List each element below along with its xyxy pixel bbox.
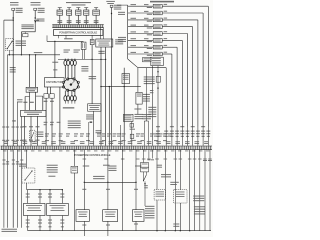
node spark plug cluster (64, 60, 76, 103)
node transfer case label (145, 206, 155, 219)
switch SW5 brake on-off (154, 150, 165, 231)
sensor B1 barometric (122, 74, 129, 84)
injector INJ6 (153, 39, 162, 43)
switch SW6 neutral sense (174, 150, 187, 231)
solenoid S4 (84, 8, 89, 16)
node SPARK PLUGS label (63, 107, 75, 108)
connector C101 below injectors (151, 57, 164, 65)
fuse F1 (12, 8, 23, 19)
op-amp U1 POWERTRAIN CONTROL MODULE box (top) (54, 30, 103, 36)
wire from fuse F2 down (34, 18, 39, 32)
fuse F3 fuse link (110, 5, 121, 15)
connector pin labels right bank (156, 126, 210, 145)
connector strip C2 (main PCM 60 pin) (1, 146, 213, 150)
node bottom left destination label (2, 229, 18, 232)
injector INJ1 (153, 4, 162, 8)
wire drops to sensors (82, 182, 138, 209)
switch SW1 ignition switch (6, 39, 27, 55)
wire right drops far (203, 150, 212, 231)
wire solenoid S3 to PCM connector (76, 15, 81, 24)
sensor B3 low coolant (76, 210, 89, 222)
capacitor C1 radio interference (68, 104, 102, 146)
wire right drop x165 (161, 150, 171, 231)
node strip C2 labels above (4, 141, 209, 144)
wire below speed control boxes (26, 216, 65, 231)
wire from fuse F1 down (12, 18, 14, 55)
solenoid S3 (76, 8, 81, 16)
wire injector INJ1 return (162, 4, 208, 127)
wire PCM to distributor feed (47, 35, 84, 41)
node HOT IN RUN header (31, 2, 41, 6)
injector INJ2 (153, 11, 162, 15)
wire injector INJ5 return (162, 31, 187, 126)
relay K1 (96, 28, 123, 54)
wire below sensors (82, 221, 138, 236)
solenoid S2 (67, 8, 72, 16)
op-amp U3 speed control servo (24, 203, 46, 215)
node bottom stub labels (83, 159, 212, 160)
injector INJ3 (153, 18, 162, 22)
svg-text:POWERTRAIN CONTROL MODULE: POWERTRAIN CONTROL MODULE (75, 153, 111, 157)
wire injector INJ7 feed (128, 45, 154, 49)
node wire labels above main strip (2, 127, 172, 142)
inductor L1 IGNITION COIL (26, 55, 37, 92)
node HOT AT ALL TIMES header right (106, 1, 115, 4)
node start feed tee (21, 24, 35, 54)
wire solenoid S1 to PCM connector (57, 15, 62, 24)
sensor B4 coolant temperature (103, 210, 118, 222)
wire injector INJ1 feed (128, 4, 154, 8)
wire EDF bus diagonal (128, 59, 167, 127)
wire fuse F1 rail to PCM strip (12, 55, 14, 228)
wire right drop x175 (170, 150, 179, 231)
connector C102 (90, 35, 94, 103)
wire ignition bus (8, 52, 61, 73)
wire injector INJ5 feed (128, 31, 154, 35)
connector strip C1 (top PCM 60-pin) (52, 25, 104, 28)
node C100 label left (35, 19, 45, 23)
wire sensor return drop (71, 150, 78, 231)
wire solenoid S5 to PCM connector (94, 15, 99, 24)
switch SW2 stoplamp (30, 130, 44, 141)
connector C103 with pins (81, 42, 86, 59)
solenoid S1 (57, 8, 63, 16)
wire signal return bus (83, 150, 142, 183)
node FUEL INJECTORS header (150, 1, 174, 3)
sensor B2 knock sensor (136, 68, 150, 115)
wire mid feeds to strip (89, 122, 121, 146)
wire left rail E (21, 116, 23, 227)
node strip C2 pin numbers (3, 150, 209, 151)
wire injector supply bus VPWR (117, 5, 128, 59)
connector C104 (124, 109, 144, 122)
injector INJ8 (153, 52, 162, 56)
connector C106 stack (141, 150, 149, 172)
op-amp U4 speed control amplifier (47, 203, 69, 215)
wire ground bus bottom (28, 230, 211, 231)
injector INJ4 (153, 25, 162, 29)
wire bottom left harness labels (3, 160, 24, 165)
svg-text:POWERTRAIN CONTROL MODULE: POWERTRAIN CONTROL MODULE (59, 31, 97, 35)
sensor B5 oil pressure (133, 210, 145, 222)
switch SW3 clutch pedal position (19, 150, 58, 190)
wire injector INJ8 return (162, 52, 172, 127)
op-amp U2 ignition control module (21, 110, 47, 116)
wire PCM feeds middle right (81, 7, 124, 145)
wire solenoid S4 to PCM connector (84, 15, 89, 24)
node HOT AT ALL TIMES header left (10, 2, 19, 6)
switch SW4 4x4 low (143, 172, 148, 206)
wire left rail A tee (4, 19, 14, 227)
node distributor cap (62, 78, 79, 92)
transistor Q1 DISTRIBUTOR (44, 78, 64, 87)
wire solenoid S2 to PCM connector (67, 15, 72, 24)
wire plug leads (65, 59, 76, 61)
wire distributor outputs (44, 87, 61, 146)
wire injector INJ3 return (162, 18, 198, 127)
wire injector INJ6 return (162, 38, 182, 126)
wire shield drain below C101 (148, 66, 160, 146)
wire coil to module (12, 92, 43, 121)
fuse F2 (34, 8, 45, 19)
wire center drop x122 (122, 150, 124, 231)
connector C105 labels (143, 68, 152, 146)
wire right drops 1 (148, 150, 155, 161)
wire injector INJ6 feed (128, 38, 154, 42)
svg-text:DISTRIBUTOR: DISTRIBUTOR (46, 81, 62, 84)
node junction distributor feed (52, 41, 58, 78)
wire left rail B (7, 55, 9, 228)
wire injector INJ7 return (162, 45, 177, 127)
wire injector INJ8 feed (128, 52, 154, 56)
wire injector INJ3 feed (128, 18, 154, 22)
wire speed control bus (26, 189, 65, 203)
node C100 label mid (143, 58, 152, 62)
wire injector INJ2 return (162, 11, 203, 127)
wire injector INJ4 feed (128, 25, 154, 29)
wire injector INJ2 feed (128, 11, 154, 15)
diode D1 chain below C104 (130, 122, 136, 146)
wire right drops speed sensor (190, 150, 205, 231)
injector INJ5 (153, 32, 162, 36)
wire module outputs to strip (23, 116, 40, 145)
wire spark plug bus (58, 50, 106, 61)
solenoid S5 (93, 8, 100, 16)
wire ground bus mid (100, 76, 154, 87)
node TO TRANSMISSION header (66, 2, 91, 6)
wire left rail D (16, 102, 18, 228)
wire injector INJ4 return (162, 24, 193, 126)
injector INJ7 (153, 45, 162, 49)
